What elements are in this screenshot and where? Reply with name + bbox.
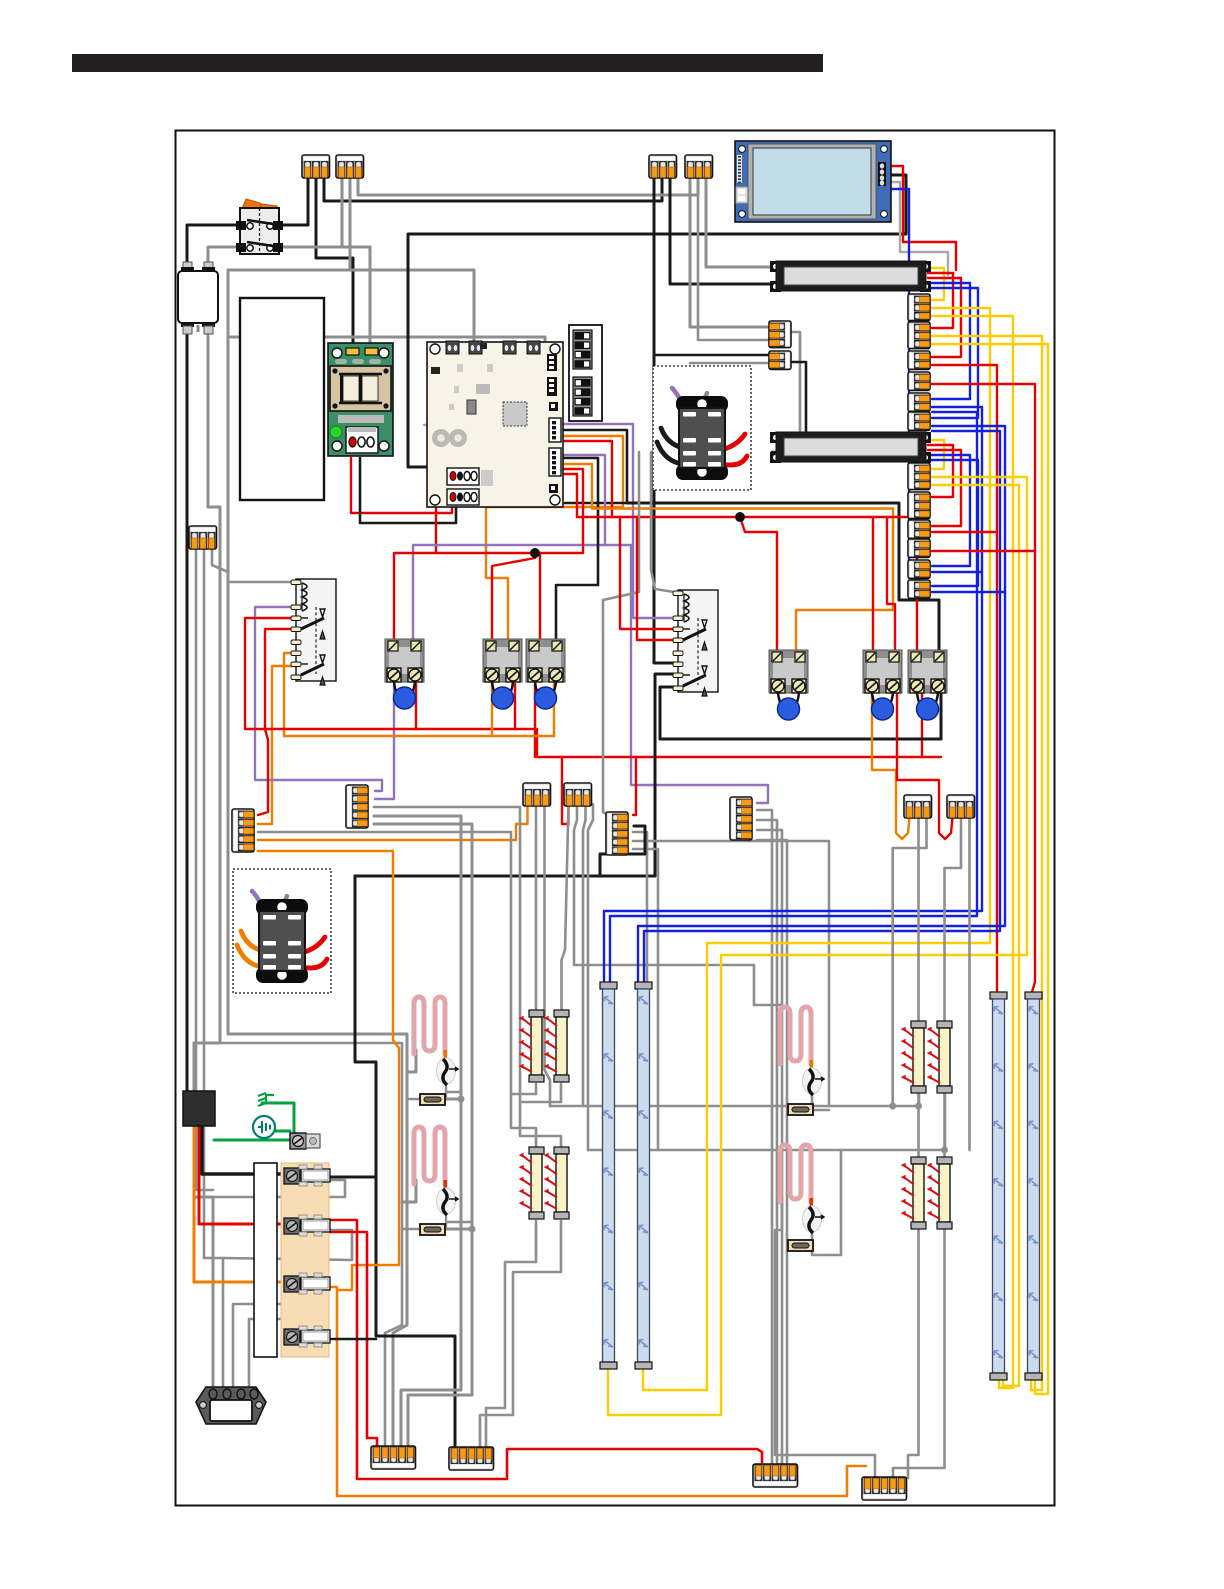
wire gray TB-L4 n1 xyxy=(757,810,772,1468)
SSR Q4 xyxy=(769,650,808,720)
wire red branch to SSR2 xyxy=(492,553,535,641)
heater element H2 xyxy=(414,1127,447,1188)
thermal fuse FH2 xyxy=(420,1224,445,1235)
heater element H3 xyxy=(780,1007,813,1068)
wire PCB black to SSR3 xyxy=(556,458,598,641)
wire gray TB-L4 n2 xyxy=(757,820,777,1468)
IR emitter I1 xyxy=(519,1010,544,1082)
title bar xyxy=(72,54,823,72)
wire red SSR3 drop xyxy=(534,684,536,757)
wire red into TB-T2 xyxy=(562,757,569,824)
wire red col1 xyxy=(932,365,997,992)
wire gray TB-E drop2 xyxy=(204,548,223,1388)
thermal fuse FH1 xyxy=(420,1094,445,1105)
wire black bus to TB-M xyxy=(376,1177,455,1449)
terminal block TB-R10 xyxy=(908,539,930,557)
LED tube T1 xyxy=(600,982,617,1369)
wire yellow col3 xyxy=(932,336,1042,1390)
wire red branch SSR6 xyxy=(916,517,918,652)
wire gray fuse outs2 xyxy=(223,1230,352,1260)
junction node red SSR xyxy=(530,548,540,558)
terminal block TB-B xyxy=(336,155,364,178)
wire gray I6 to I8 xyxy=(943,1090,946,1159)
wire red branch to SSR3 xyxy=(539,553,541,641)
IEC inlet J1 xyxy=(196,1387,266,1424)
wire L block TB-A to transformer pcb xyxy=(316,176,353,346)
wire black bus down xyxy=(330,876,376,1177)
wire N bus to PCB connector xyxy=(349,176,352,270)
wire gray H4 left xyxy=(775,1198,875,1478)
terminal block TB-T2 xyxy=(564,783,592,806)
terminal block TB-R9 xyxy=(908,520,930,538)
wire orange into TB-T1 xyxy=(516,804,528,840)
thermal cutout F-H1 xyxy=(437,1058,459,1085)
wire gray TB-L4 n3 xyxy=(757,830,782,1468)
wire black SSR6 bus xyxy=(660,684,941,739)
wire black fuse4 out xyxy=(330,1338,376,1341)
wire red col3 xyxy=(932,531,997,533)
wire red bus to right SSRs xyxy=(577,516,917,518)
wire red to TB-L3 xyxy=(633,757,636,815)
LED tube T2 xyxy=(635,982,652,1369)
wire mains orange down xyxy=(194,1124,286,1282)
heater element H1 xyxy=(414,997,447,1058)
wire yellow col6 xyxy=(932,485,1019,1386)
controller PCB U1 xyxy=(427,341,563,507)
wire gray to heater2 fuse xyxy=(220,1043,402,1449)
wire N bus horizontal 2 xyxy=(228,337,545,345)
thermal cutout F-H4 xyxy=(803,1206,825,1233)
SSR Q5 xyxy=(863,650,902,720)
DIP switch bank SW1 xyxy=(569,325,602,421)
wire black ballast2 feed xyxy=(772,362,806,452)
wire purple relay K1 coil xyxy=(255,607,298,778)
IR emitter I8 xyxy=(927,1157,952,1229)
wire purple SSR1 drop xyxy=(375,684,394,799)
wire gray H3 bottom xyxy=(811,1090,814,1106)
terminal block TB-R5 xyxy=(908,393,930,411)
wire red SSR5 to TB-T4 xyxy=(897,684,953,839)
wire gray I3 to TB-M xyxy=(486,1221,536,1451)
wire red ballast1 f2 xyxy=(928,273,953,328)
wire red ballast2 f2 xyxy=(928,445,953,497)
wire N EMI filter down to IEC xyxy=(194,324,220,1388)
wire gray TB-L3 a xyxy=(633,832,647,1106)
wire N rocker to EMI filter xyxy=(208,247,238,268)
wire gray I1 to I3 xyxy=(511,1084,536,1148)
wire gray TB-E drop3 xyxy=(212,548,228,572)
wire gray I8 to TB-O xyxy=(893,1227,945,1478)
thermal cutout F-H3 xyxy=(803,1068,825,1095)
wire blue col1b xyxy=(610,412,977,984)
IR emitter I5 xyxy=(901,1021,926,1093)
junction node gray B xyxy=(915,1103,922,1110)
wire gray T1 to I1 xyxy=(535,804,538,1012)
wire heater2 fuse out xyxy=(443,1228,472,1231)
terminal block TB-R7 xyxy=(908,463,930,490)
wire blue col5 xyxy=(932,571,982,573)
SSR Q6 xyxy=(908,650,947,720)
wire orange relay K1 a xyxy=(284,653,298,736)
terminal block TB-D xyxy=(685,155,713,178)
wire gray TB-E drop1 xyxy=(196,548,213,1190)
wire gray I7 to TB-O xyxy=(908,1227,919,1478)
wire gray H3 fuse out xyxy=(813,1109,829,1112)
wire transformer red out xyxy=(351,458,452,513)
wire LCD gray xyxy=(884,182,948,275)
wire red SSR2 drop xyxy=(514,684,516,729)
terminal block TB-M xyxy=(449,1447,494,1470)
wire red col2 xyxy=(932,384,1035,992)
junction node gray C xyxy=(941,1147,948,1154)
terminal block TB-L3 xyxy=(606,812,628,855)
terminal block TB-L1 xyxy=(232,809,254,852)
earth terminal xyxy=(290,1133,320,1149)
relay contacts K2 xyxy=(673,590,718,696)
wire red SSR6 drop xyxy=(921,684,923,757)
wire yellow ballast2 f1 xyxy=(928,440,944,469)
wire mains L to fuse1 xyxy=(202,1124,286,1174)
wire PCB purple to relay coil K2 xyxy=(561,424,680,618)
wire gray TB-L2 p3 xyxy=(374,807,520,1102)
wire gray TB-L2 h1 xyxy=(374,816,461,1451)
wire TB-D1 to terminal xyxy=(690,176,770,327)
terminal block TB-R1 xyxy=(908,294,930,321)
wire gray to TB-S2b xyxy=(690,362,769,365)
wire earth green 1 xyxy=(214,1103,294,1140)
wire PCB orange to SSR2 xyxy=(486,436,623,641)
wire gray fuse1 left xyxy=(407,1098,421,1101)
ballast/driver B2 xyxy=(770,432,931,463)
wire gray IEC 3 xyxy=(233,1304,305,1388)
junction node gray D xyxy=(458,1096,465,1103)
wire gray cross line B xyxy=(588,1094,945,1150)
wire LCD red xyxy=(884,166,956,270)
relay contacts K1 xyxy=(291,579,336,685)
wire orange relay K1 b xyxy=(258,666,298,824)
wire blue ballast2 f4 xyxy=(928,455,970,566)
wire gray thermostat1 tap xyxy=(447,1091,461,1094)
wire PCB red2 to bus xyxy=(561,474,577,517)
wire PCB red to red bus xyxy=(561,441,612,517)
terminal block TB-S2 xyxy=(769,351,791,369)
wire gray mid drop xyxy=(603,452,639,816)
wire gray ballast2 feed xyxy=(772,332,800,441)
wire gray T2 drop a xyxy=(574,804,782,1005)
wire TB-C3 to ballast1 xyxy=(670,176,772,284)
wire gray TB-L3 b xyxy=(633,849,658,1150)
enclosure outline box xyxy=(240,298,324,500)
wire yellow col1 xyxy=(643,308,990,1390)
wire gray H4 bottom xyxy=(812,1150,841,1255)
junction node gray A xyxy=(889,1103,896,1110)
wire heater2 stat out xyxy=(445,1212,447,1229)
wire gray thermostat2 tap xyxy=(447,1221,472,1224)
wire gray T2 drop b xyxy=(583,804,586,1106)
wire gray T2 drop c xyxy=(588,804,593,1150)
wire L from block TB-A to rocker switch xyxy=(281,176,308,225)
rocker switch S1 xyxy=(236,199,283,254)
wire yellow col5 xyxy=(608,477,1027,1415)
transformer PCB U2 xyxy=(328,343,393,456)
wire gray fuse outs xyxy=(213,1180,345,1197)
ballast/driver B1 xyxy=(770,261,931,292)
wire gray relay K2 coil xyxy=(651,452,680,593)
wire mains red to fuse2 xyxy=(199,1124,286,1224)
wire into PCB conn red xyxy=(436,480,449,553)
wire TB-D3 to ballast1 xyxy=(706,176,772,267)
terminal block TB-R2 xyxy=(908,322,930,349)
wire LCD blue to relay block xyxy=(884,189,925,578)
wire blue ballast1 f5 xyxy=(928,288,978,418)
junction node red bus xyxy=(735,512,745,522)
wire L EMI filter to mains box xyxy=(186,324,189,1092)
wire red fuse2 out2 xyxy=(330,1232,377,1451)
wire black to SSR6 xyxy=(627,503,939,652)
terminal block TB-L2 xyxy=(346,785,368,828)
wire gray I4 to TB-M xyxy=(480,1221,561,1451)
wire N bus horizontal xyxy=(228,270,474,345)
wire red branch SSR4 xyxy=(740,517,777,652)
wire red relay K1 b xyxy=(265,629,298,729)
mains entry box xyxy=(183,1091,215,1126)
diagram border frame xyxy=(176,131,1055,1506)
terminal block TB-C xyxy=(649,155,677,178)
wire blue ballast2 f5 xyxy=(928,460,978,586)
wire heater2 stat stub xyxy=(445,1182,447,1192)
wire gray to TB-S1b xyxy=(698,176,769,340)
wire heater1 left lead xyxy=(407,1050,416,1072)
terminal block TB-R11 xyxy=(908,560,930,578)
wire orange SSR2 drop xyxy=(491,684,493,736)
wire purple branch to TB-L4 xyxy=(605,545,768,803)
wire earth green 2 xyxy=(276,1130,290,1133)
IR emitter I2 xyxy=(544,1010,569,1082)
wire gray T4-p2 to I6 xyxy=(945,818,962,1023)
terminal block TB-E xyxy=(189,526,217,549)
wire gray T2 to I2 xyxy=(562,804,569,1012)
wire orange SSR3 drop xyxy=(553,684,555,736)
wire gray T4-p3 drop xyxy=(968,818,971,1150)
wire transformer black out xyxy=(360,458,456,523)
terminal block TB-R3 xyxy=(908,351,930,369)
wire into PCB conn gray xyxy=(424,425,449,455)
terminal block TB-L4 xyxy=(730,797,752,840)
wire yellow col4 xyxy=(932,344,1048,1394)
wire gray T1 drop xyxy=(545,804,551,1106)
wire black to TB-S2 xyxy=(654,354,769,357)
earth symbol circle xyxy=(253,1116,275,1138)
LED tube T4 xyxy=(1025,992,1042,1380)
terminal block TB-R12 xyxy=(908,580,930,598)
terminal block TB-R4 xyxy=(908,372,930,390)
wire heater1 stat stub xyxy=(445,1052,447,1062)
wire heater2 left lead xyxy=(402,1180,416,1202)
SSR Q3 xyxy=(526,639,565,709)
wire blue col1 xyxy=(604,407,982,984)
wire N rocker to block TB-B xyxy=(281,247,370,350)
terminal block TB-T3 xyxy=(904,795,932,818)
SSR Q1 xyxy=(385,639,424,709)
wire gray to relay K1 coil xyxy=(228,581,298,584)
wire PCB black long bus xyxy=(561,430,627,503)
wire PCB orange 2 to SSR4 xyxy=(561,464,893,652)
fuse rail xyxy=(254,1163,330,1357)
wire gray TB-L2 h2 xyxy=(374,824,472,1451)
wire blue col2 xyxy=(638,426,1005,984)
wire N left drop long xyxy=(228,270,407,1449)
terminal block TB-T4 xyxy=(947,795,975,818)
terminal block TB-S1 xyxy=(769,321,791,348)
wire gray fuse2 left xyxy=(402,1228,421,1231)
terminal block TB-A xyxy=(302,155,330,178)
wire orange SSR5 to TB-T3 xyxy=(872,684,910,839)
wire gray T3-p2 to I5 xyxy=(917,818,920,1023)
LED tube T3 xyxy=(990,992,1007,1380)
wire blue col6 xyxy=(932,591,1005,593)
earth symbol bars xyxy=(258,1093,274,1106)
relay module RM2 xyxy=(233,869,331,993)
wire red branch SSR5 xyxy=(872,517,874,652)
IR emitter I4 xyxy=(544,1147,569,1219)
wire heater1 stat out xyxy=(445,1082,447,1099)
wire PCB red to SSR bus xyxy=(394,469,583,641)
wire orange fuse3 out xyxy=(330,1287,866,1496)
wire blue ballast1 f4 xyxy=(928,283,970,399)
terminal block TB-R6 xyxy=(908,412,930,430)
wire gray T3-p3 drop xyxy=(893,818,927,1106)
IR emitter I3 xyxy=(519,1147,544,1219)
terminal block TB-N xyxy=(753,1464,798,1487)
wire black bus to TB-L3 xyxy=(600,826,645,876)
wire red relay K1 a xyxy=(245,618,298,729)
wire yellow ballast1 f1 xyxy=(928,268,944,300)
wire TB-C1 long drop xyxy=(654,176,678,663)
wire gray TB-L3 c xyxy=(633,841,829,1106)
wire red fuse2 out xyxy=(330,1220,762,1479)
wire gray TB-L4 n4 xyxy=(757,840,787,1468)
thermal fuse FH4 xyxy=(788,1240,813,1251)
wire L rocker to EMI filter xyxy=(187,225,238,268)
wire N block TB-B down xyxy=(341,176,344,247)
wire L block TB-A to block TB-C xyxy=(324,176,662,201)
wire gray I2 to I4 xyxy=(520,1084,561,1148)
wire red col4 xyxy=(932,550,1035,552)
wire gray I5 to I7 xyxy=(917,1090,920,1159)
wire red ballast2 f3 xyxy=(928,450,961,526)
wire orange TB-L1 out1 xyxy=(258,839,516,841)
wire LCD black to PCB xyxy=(408,175,906,467)
IR emitter I6 xyxy=(927,1021,952,1093)
wire gray cross line A xyxy=(550,1094,919,1106)
EMI filter FL1 xyxy=(178,262,218,334)
wire N block TB-B to block TB-D xyxy=(358,176,698,195)
wire red SSR1 drop xyxy=(415,684,417,729)
wire heater1 fuse out xyxy=(443,1098,461,1101)
wire red jog SSR5b xyxy=(887,517,895,652)
thermal fuse FH3 xyxy=(788,1104,813,1115)
terminal block TB-R8 xyxy=(908,492,930,519)
heater element H4 xyxy=(780,1145,813,1206)
LCD display DS1 xyxy=(735,141,891,222)
SSR Q2 xyxy=(483,639,522,709)
wire red relay K2 a xyxy=(620,517,680,629)
wire red bus lower xyxy=(245,729,941,757)
wire into PCB conn blue xyxy=(430,418,449,447)
relay module RM1 xyxy=(653,366,751,490)
wire red to TB-L1 xyxy=(258,729,268,815)
wire orange bus xyxy=(284,735,554,737)
wire red relay K2 b xyxy=(637,517,680,640)
terminal block TB-T1 xyxy=(523,783,551,806)
terminal block TB-BL1 xyxy=(371,1446,416,1469)
terminal block TB-O xyxy=(862,1477,907,1500)
wire purple bus xyxy=(255,780,382,791)
IR emitter I7 xyxy=(901,1157,926,1229)
wire PCB purple to SSR1 xyxy=(413,455,605,641)
wire blue col2b xyxy=(644,431,1000,984)
wire yellow col2 xyxy=(932,316,1013,1388)
wire gray TB-L1 a xyxy=(258,832,511,1094)
junction node gray E xyxy=(469,1226,476,1233)
wire orange TB-L1 out2 xyxy=(258,851,399,1290)
wire gray IEC 4 xyxy=(249,1319,302,1388)
wire black bus mid xyxy=(355,674,678,876)
wire red ballast1 f3 xyxy=(928,278,961,357)
thermal cutout F-H2 xyxy=(437,1188,459,1215)
